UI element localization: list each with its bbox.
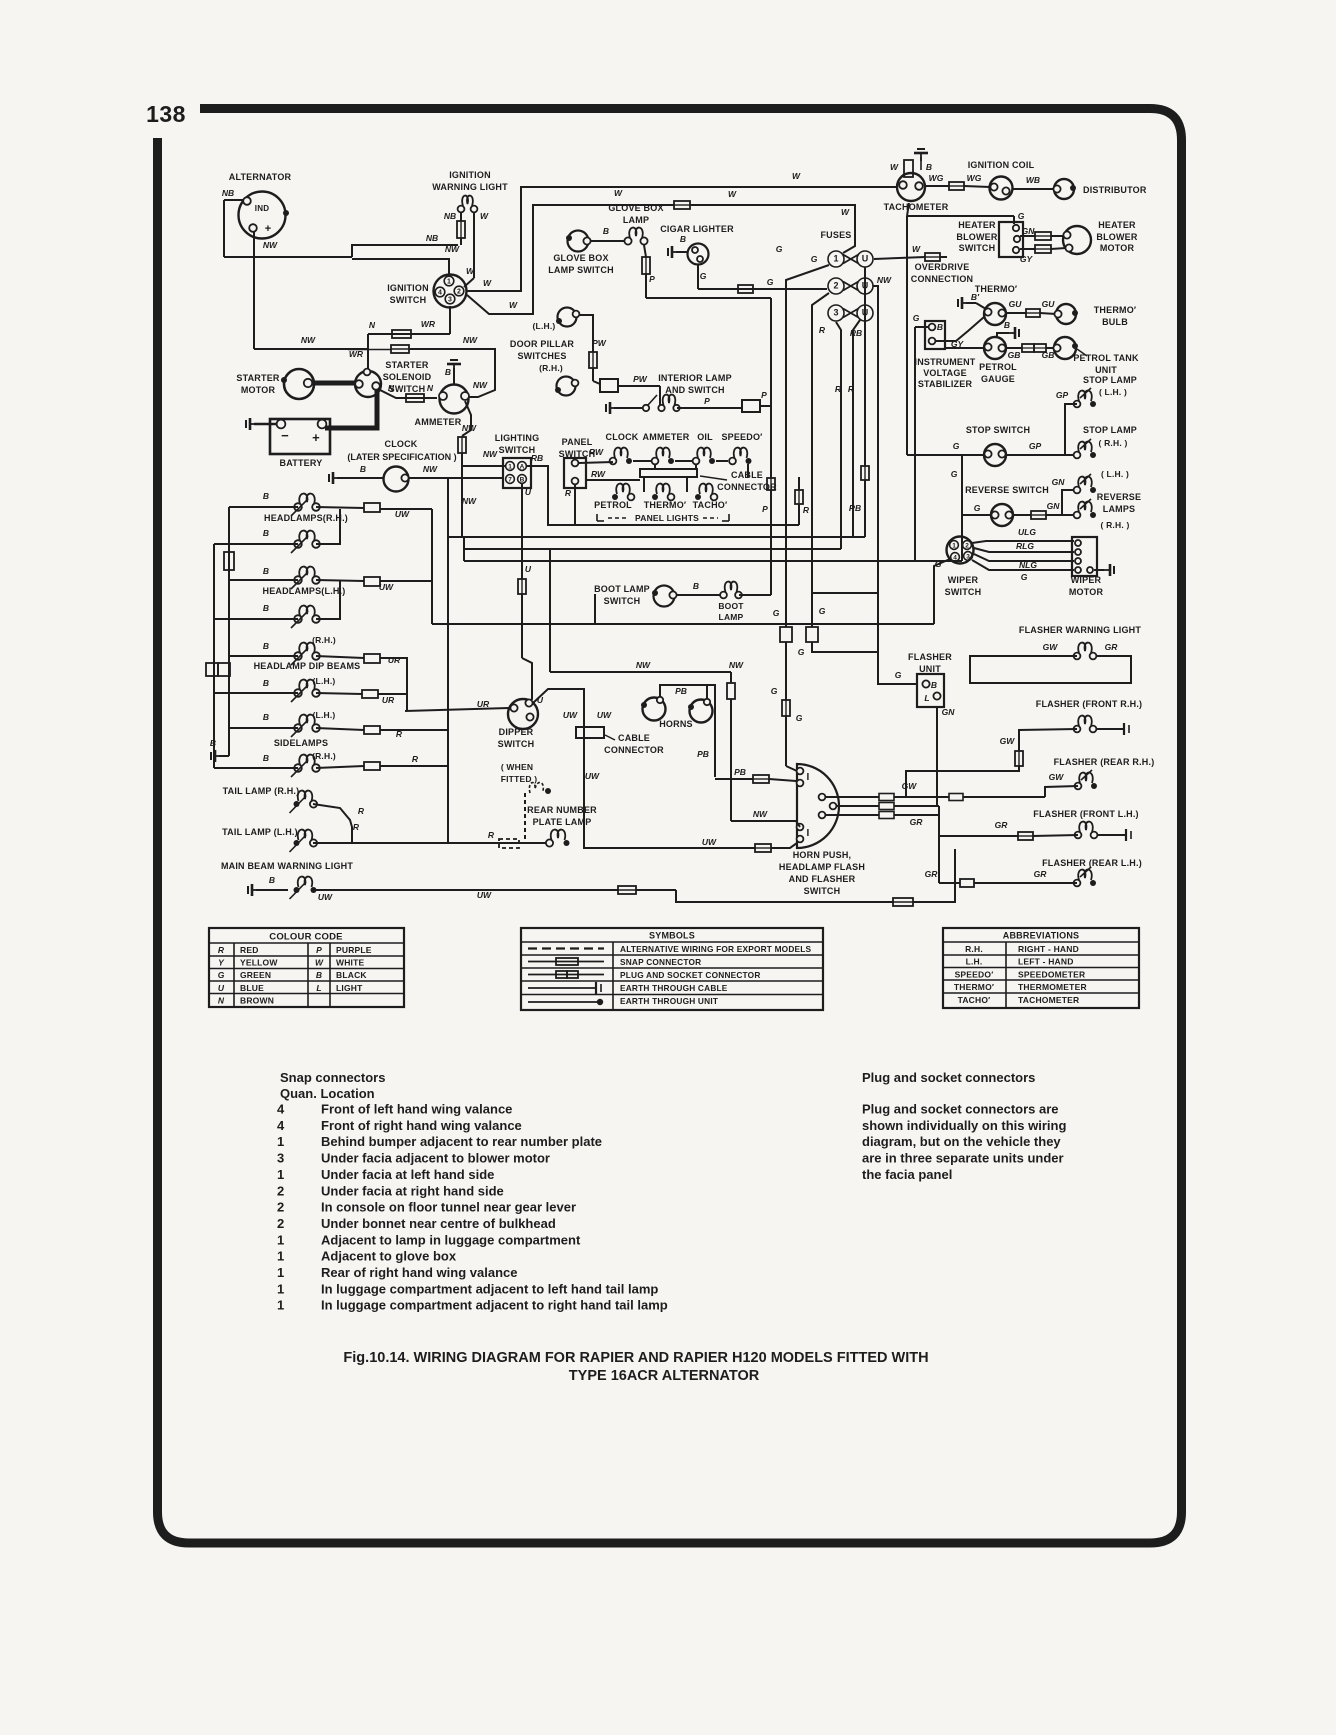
svg-text:1: 1: [833, 254, 838, 264]
svg-text:EARTH THROUGH CABLE: EARTH THROUGH CABLE: [620, 983, 728, 993]
svg-text:B: B: [520, 477, 525, 484]
svg-text:NW: NW: [263, 240, 278, 250]
svg-text:GN: GN: [1047, 501, 1061, 511]
svg-text:Front of right hand wing valan: Front of right hand wing valance: [321, 1118, 522, 1133]
svg-text:GR: GR: [1034, 869, 1048, 879]
svg-text:RIGHT - HAND: RIGHT - HAND: [1018, 944, 1079, 954]
svg-text:SYMBOLS: SYMBOLS: [649, 931, 695, 941]
svg-text:IGNITION: IGNITION: [387, 283, 429, 293]
svg-text:DOOR PILLAR: DOOR PILLAR: [510, 339, 574, 349]
svg-text:G: G: [798, 647, 805, 657]
svg-text:4: 4: [277, 1118, 285, 1133]
svg-text:GR: GR: [910, 817, 924, 827]
svg-text:(R.H.): (R.H.): [312, 751, 336, 761]
svg-text:HORNS: HORNS: [659, 719, 693, 729]
svg-text:( R.H. ): ( R.H. ): [1101, 520, 1130, 530]
svg-text:UW: UW: [597, 710, 612, 720]
svg-text:AMMETER: AMMETER: [415, 417, 462, 427]
svg-text:G: G: [819, 606, 826, 616]
svg-text:PURPLE: PURPLE: [336, 945, 372, 955]
svg-text:R: R: [848, 384, 855, 394]
svg-text:W: W: [614, 188, 623, 198]
svg-text:are in three separate units un: are in three separate units under: [862, 1151, 1064, 1166]
svg-text:B: B: [445, 367, 451, 377]
svg-text:B: B: [937, 322, 943, 332]
svg-text:( L.H. ): ( L.H. ): [1101, 469, 1129, 479]
svg-text:B: B: [316, 970, 322, 980]
svg-text:HEATER: HEATER: [1098, 220, 1136, 230]
svg-text:G: G: [773, 608, 780, 618]
svg-text:PLUG AND SOCKET CONNECTOR: PLUG AND SOCKET CONNECTOR: [620, 970, 761, 980]
svg-text:SWITCHES: SWITCHES: [517, 351, 566, 361]
svg-text:WR: WR: [349, 349, 364, 359]
svg-text:BROWN: BROWN: [240, 995, 274, 1005]
svg-text:SWITCH: SWITCH: [498, 739, 535, 749]
svg-text:1: 1: [277, 1249, 284, 1264]
svg-text:NW: NW: [473, 380, 488, 390]
svg-text:U: U: [525, 487, 532, 497]
svg-text:BLOWER: BLOWER: [1096, 232, 1137, 242]
svg-text:R: R: [353, 822, 360, 832]
svg-text:FUSES: FUSES: [820, 230, 851, 240]
svg-text:BOOT: BOOT: [718, 601, 744, 611]
svg-text:SPEEDOMETER: SPEEDOMETER: [1018, 969, 1085, 979]
svg-text:WG: WG: [967, 173, 982, 183]
svg-text:G: G: [767, 277, 774, 287]
svg-text:( R.H. ): ( R.H. ): [1099, 438, 1128, 448]
svg-text:2: 2: [277, 1183, 284, 1198]
svg-text:THERMOMETER: THERMOMETER: [1018, 982, 1087, 992]
svg-text:PB: PB: [697, 749, 709, 759]
svg-text:TACHOMETER: TACHOMETER: [884, 202, 949, 212]
svg-text:R: R: [412, 754, 419, 764]
svg-text:SWITCH: SWITCH: [389, 384, 426, 394]
svg-text:GP: GP: [1029, 441, 1042, 451]
svg-text:Quan. Location: Quan. Location: [280, 1086, 375, 1101]
svg-text:G: G: [218, 970, 225, 980]
svg-text:GR: GR: [995, 820, 1009, 830]
svg-text:Adjacent to glove box: Adjacent to glove box: [321, 1249, 457, 1264]
svg-text:PANEL LIGHTS: PANEL LIGHTS: [635, 513, 699, 523]
svg-text:YELLOW: YELLOW: [240, 958, 278, 968]
svg-text:PW: PW: [592, 338, 607, 348]
svg-text:NLG: NLG: [1019, 560, 1037, 570]
svg-text:UW: UW: [477, 890, 492, 900]
svg-text:REVERSE: REVERSE: [1097, 492, 1141, 502]
svg-text:the facia panel: the facia panel: [862, 1167, 952, 1182]
svg-text:HEADLAMP DIP BEAMS: HEADLAMP DIP BEAMS: [254, 661, 361, 671]
svg-text:UW: UW: [318, 892, 333, 902]
svg-text:GN: GN: [942, 707, 956, 717]
svg-text:UNIT: UNIT: [919, 664, 941, 674]
svg-text:2: 2: [457, 289, 461, 296]
svg-text:Plug and socket connectors: Plug and socket connectors: [862, 1070, 1035, 1085]
svg-text:3: 3: [833, 308, 838, 318]
svg-text:Fig.10.14. WIRING DIAGRAM FOR: Fig.10.14. WIRING DIAGRAM FOR RAPIER AND…: [343, 1350, 928, 1366]
svg-text:UNIT: UNIT: [1095, 365, 1117, 375]
svg-text:In console on floor tunnel nea: In console on floor tunnel near gear lev…: [321, 1200, 576, 1215]
svg-text:R: R: [819, 325, 826, 335]
svg-text:B: B: [210, 738, 216, 748]
svg-text:WHITE: WHITE: [336, 958, 365, 968]
svg-text:LAMP: LAMP: [719, 612, 744, 622]
svg-text:TAIL LAMP (L.H.): TAIL LAMP (L.H.): [222, 827, 298, 837]
svg-text:UW: UW: [702, 837, 717, 847]
svg-text:PETROL: PETROL: [979, 362, 1017, 372]
svg-text:W: W: [480, 211, 489, 221]
svg-text:R: R: [803, 505, 810, 515]
svg-text:NW: NW: [877, 275, 892, 285]
svg-text:BLUE: BLUE: [240, 983, 264, 993]
svg-text:N: N: [218, 995, 225, 1005]
svg-text:A: A: [520, 464, 525, 471]
svg-text:P: P: [704, 396, 710, 406]
svg-text:RW: RW: [589, 447, 604, 457]
svg-text:NW: NW: [753, 809, 768, 819]
svg-text:B: B: [926, 162, 932, 172]
svg-text:THERMO′: THERMO′: [644, 500, 687, 510]
svg-text:THERMO′: THERMO′: [954, 982, 994, 992]
svg-text:B: B: [931, 680, 937, 690]
svg-text:4: 4: [277, 1102, 285, 1117]
svg-text:G: G: [796, 713, 803, 723]
svg-text:B: B: [263, 641, 269, 651]
svg-text:IGNITION COIL: IGNITION COIL: [968, 160, 1035, 170]
svg-text:(LATER SPECIFICATION ): (LATER SPECIFICATION ): [347, 452, 456, 462]
svg-text:Under facia adjacent to blower: Under facia adjacent to blower motor: [321, 1151, 550, 1166]
svg-text:BATTERY: BATTERY: [280, 458, 323, 468]
svg-text:LAMP: LAMP: [623, 215, 649, 225]
svg-text:NB: NB: [444, 211, 456, 221]
svg-text:PANEL: PANEL: [562, 437, 593, 447]
svg-text:PW: PW: [633, 374, 648, 384]
svg-text:FLASHER: FLASHER: [908, 652, 952, 662]
svg-text:diagram, but on the vehicle th: diagram, but on the vehicle they: [862, 1134, 1061, 1149]
svg-text:B: B: [603, 226, 609, 236]
svg-text:SNAP CONNECTOR: SNAP CONNECTOR: [620, 957, 701, 967]
svg-text:1: 1: [277, 1265, 284, 1280]
svg-text:NW: NW: [462, 423, 477, 433]
svg-text:NB: NB: [426, 233, 438, 243]
svg-text:L.H.: L.H.: [966, 957, 983, 967]
svg-text:B: B: [1004, 320, 1010, 330]
svg-text:ALTERNATIVE WIRING FOR EXPORT: ALTERNATIVE WIRING FOR EXPORT MODELS: [620, 944, 812, 954]
svg-text:U: U: [525, 564, 532, 574]
svg-text:REAR NUMBER: REAR NUMBER: [527, 805, 597, 815]
svg-text:LAMPS: LAMPS: [1103, 504, 1136, 514]
svg-text:FLASHER WARNING LIGHT: FLASHER WARNING LIGHT: [1019, 625, 1141, 635]
svg-text:INTERIOR LAMP: INTERIOR LAMP: [658, 373, 732, 383]
svg-text:NW: NW: [462, 496, 477, 506]
svg-text:B: B: [263, 528, 269, 538]
svg-text:SWITCH: SWITCH: [499, 445, 536, 455]
svg-text:W: W: [728, 189, 737, 199]
svg-text:U: U: [537, 695, 544, 705]
svg-text:EARTH THROUGH UNIT: EARTH THROUGH UNIT: [620, 996, 718, 1006]
svg-text:G: G: [771, 686, 778, 696]
svg-text:138: 138: [146, 101, 186, 127]
svg-text:SPEEDO′: SPEEDO′: [721, 432, 762, 442]
svg-text:HEADLAMPS(R.H.): HEADLAMPS(R.H.): [264, 513, 348, 523]
svg-text:G: G: [974, 503, 981, 513]
svg-text:P: P: [316, 945, 322, 955]
svg-text:AMMETER: AMMETER: [643, 432, 690, 442]
svg-text:G: G: [1018, 211, 1025, 221]
svg-text:TACHO′: TACHO′: [693, 500, 728, 510]
svg-text:W: W: [466, 266, 475, 276]
svg-text:(R.H.): (R.H.): [539, 363, 563, 373]
svg-text:B: B: [680, 234, 686, 244]
svg-text:VOLTAGE: VOLTAGE: [923, 368, 967, 378]
svg-text:GW: GW: [902, 781, 918, 791]
svg-text:B′: B′: [971, 292, 980, 302]
svg-text:B: B: [269, 875, 275, 885]
svg-text:HEADLAMP FLASH: HEADLAMP FLASH: [779, 862, 865, 872]
svg-text:CONNECTION: CONNECTION: [911, 274, 974, 284]
svg-text:NB: NB: [222, 188, 234, 198]
svg-text:(L.H.): (L.H.): [533, 321, 556, 331]
svg-text:1: 1: [277, 1134, 284, 1149]
svg-text:AND FLASHER: AND FLASHER: [789, 874, 856, 884]
svg-text:−: −: [281, 428, 289, 443]
svg-text:In luggage compartment adjacen: In luggage compartment adjacent to right…: [321, 1298, 668, 1313]
svg-text:STOP LAMP: STOP LAMP: [1083, 425, 1137, 435]
svg-text:3: 3: [448, 297, 452, 304]
svg-text:STARTER: STARTER: [385, 360, 429, 370]
svg-text:W: W: [509, 300, 518, 310]
svg-text:1: 1: [952, 543, 956, 550]
svg-text:R: R: [565, 488, 572, 498]
svg-text:UR: UR: [388, 655, 401, 665]
svg-text:WB: WB: [1026, 175, 1040, 185]
svg-text:PB: PB: [734, 767, 746, 777]
svg-text:GN: GN: [1022, 226, 1036, 236]
svg-text:BOOT LAMP: BOOT LAMP: [594, 584, 650, 594]
svg-text:B: B: [263, 712, 269, 722]
svg-text:P: P: [762, 504, 768, 514]
svg-text:MOTOR: MOTOR: [1100, 243, 1135, 253]
svg-text:G: G: [776, 244, 783, 254]
svg-text:G: G: [951, 469, 958, 479]
svg-text:STABILIZER: STABILIZER: [918, 379, 973, 389]
svg-text:LAMP SWITCH: LAMP SWITCH: [548, 265, 614, 275]
svg-text:CLOCK: CLOCK: [385, 439, 418, 449]
svg-text:TAIL LAMP (R.H.): TAIL LAMP (R.H.): [223, 786, 300, 796]
svg-text:GREEN: GREEN: [240, 970, 271, 980]
svg-text:COLOUR CODE: COLOUR CODE: [269, 932, 342, 943]
svg-text:B: B: [360, 464, 366, 474]
svg-text:2: 2: [833, 281, 838, 291]
svg-text:4: 4: [438, 290, 442, 297]
svg-text:SWITCH: SWITCH: [390, 295, 427, 305]
svg-text:+: +: [265, 223, 272, 235]
svg-text:NW: NW: [423, 464, 438, 474]
svg-text:G: G: [700, 271, 707, 281]
svg-text:SWITCH: SWITCH: [959, 243, 996, 253]
svg-text:CIGAR LIGHTER: CIGAR LIGHTER: [660, 224, 734, 234]
svg-text:WARNING LIGHT: WARNING LIGHT: [432, 182, 508, 192]
svg-text:GU: GU: [1009, 299, 1023, 309]
svg-text:IGNITION: IGNITION: [449, 170, 491, 180]
svg-text:R: R: [488, 830, 495, 840]
svg-text:FLASHER (REAR L.H.): FLASHER (REAR L.H.): [1042, 858, 1142, 868]
svg-text:UW: UW: [379, 582, 394, 592]
svg-text:UR: UR: [382, 695, 395, 705]
svg-text:GY: GY: [1020, 254, 1034, 264]
svg-text:NW: NW: [301, 335, 316, 345]
svg-text:SOLENOID: SOLENOID: [383, 372, 432, 382]
svg-text:NW: NW: [463, 335, 478, 345]
svg-text:Under facia at left hand side: Under facia at left hand side: [321, 1167, 494, 1182]
svg-text:B: B: [263, 491, 269, 501]
svg-text:B: B: [263, 566, 269, 576]
svg-text:B: B: [263, 753, 269, 763]
svg-text:THERMO′: THERMO′: [1094, 305, 1137, 315]
svg-text:RLG: RLG: [1016, 541, 1034, 551]
svg-text:THERMO′: THERMO′: [975, 284, 1018, 294]
svg-text:NW: NW: [483, 449, 498, 459]
svg-text:Plug and socket connectors are: Plug and socket connectors are: [862, 1102, 1059, 1117]
svg-text:L: L: [924, 693, 929, 703]
svg-text:Front of left hand wing valanc: Front of left hand wing valance: [321, 1102, 512, 1117]
svg-text:LIGHTING: LIGHTING: [495, 433, 540, 443]
svg-text:FLASHER (FRONT R.H.): FLASHER (FRONT R.H.): [1036, 699, 1143, 709]
svg-text:1: 1: [277, 1167, 284, 1182]
svg-text:TACHO′: TACHO′: [958, 995, 991, 1005]
svg-text:(L.H.): (L.H.): [313, 676, 336, 686]
svg-text:NW: NW: [445, 244, 460, 254]
svg-text:shown individually on this wir: shown individually on this wiring: [862, 1118, 1066, 1133]
svg-text:R.H.: R.H.: [965, 944, 983, 954]
svg-text:P: P: [649, 274, 655, 284]
svg-text:REVERSE SWITCH: REVERSE SWITCH: [965, 485, 1049, 495]
svg-text:G: G: [1021, 572, 1028, 582]
svg-text:G: G: [913, 313, 920, 323]
svg-text:GW: GW: [1049, 772, 1065, 782]
svg-text:MAIN BEAM WARNING LIGHT: MAIN BEAM WARNING LIGHT: [221, 861, 353, 871]
svg-text:N: N: [427, 383, 434, 393]
svg-text:CABLE: CABLE: [618, 733, 650, 743]
svg-text:BULB: BULB: [1102, 317, 1128, 327]
svg-text:INSTRUMENT: INSTRUMENT: [915, 357, 976, 367]
svg-text:PETROL TANK: PETROL TANK: [1073, 353, 1139, 363]
svg-text:WIPER: WIPER: [948, 575, 979, 585]
svg-text:SWITCH: SWITCH: [604, 596, 641, 606]
svg-text:NW: NW: [729, 660, 744, 670]
svg-text:2: 2: [277, 1216, 284, 1231]
svg-text:UW: UW: [395, 509, 410, 519]
svg-text:U: U: [862, 254, 869, 264]
svg-text:W: W: [483, 278, 492, 288]
svg-text:1: 1: [447, 279, 451, 286]
svg-text:STOP LAMP: STOP LAMP: [1083, 375, 1137, 385]
svg-text:NW: NW: [636, 660, 651, 670]
svg-text:7: 7: [508, 477, 512, 484]
svg-text:RED: RED: [240, 945, 259, 955]
svg-text:1: 1: [508, 464, 512, 471]
svg-text:GR: GR: [1105, 642, 1119, 652]
svg-text:SWITCH: SWITCH: [804, 886, 841, 896]
svg-text:GB: GB: [1008, 350, 1021, 360]
svg-text:LEFT - HAND: LEFT - HAND: [1018, 957, 1074, 967]
svg-text:ABBREVIATIONS: ABBREVIATIONS: [1003, 931, 1079, 941]
svg-text:IND: IND: [255, 204, 269, 213]
svg-text:W: W: [890, 162, 899, 172]
svg-text:R: R: [358, 806, 365, 816]
svg-text:W: W: [792, 171, 801, 181]
svg-text:PB: PB: [675, 686, 687, 696]
svg-text:DISTRIBUTOR: DISTRIBUTOR: [1083, 185, 1147, 195]
svg-text:3: 3: [277, 1151, 284, 1166]
svg-text:In luggage compartment adjacen: In luggage compartment adjacent to left …: [321, 1281, 658, 1296]
svg-text:UW: UW: [563, 710, 578, 720]
svg-text:1: 1: [277, 1232, 284, 1247]
svg-text:OVERDRIVE: OVERDRIVE: [915, 262, 970, 272]
svg-text:CLOCK: CLOCK: [606, 432, 639, 442]
svg-text:G: G: [895, 670, 902, 680]
svg-text:STARTER: STARTER: [236, 373, 280, 383]
svg-text:LIGHT: LIGHT: [336, 983, 363, 993]
svg-text:Adjacent to lamp in luggage co: Adjacent to lamp in luggage compartment: [321, 1232, 581, 1247]
svg-text:3: 3: [966, 554, 970, 561]
svg-text:TACHOMETER: TACHOMETER: [1018, 995, 1079, 1005]
svg-text:MOTOR: MOTOR: [241, 385, 276, 395]
svg-text:WG: WG: [929, 173, 944, 183]
svg-text:PLATE LAMP: PLATE LAMP: [533, 817, 592, 827]
svg-text:W: W: [315, 958, 324, 968]
svg-text:(R.H.): (R.H.): [312, 635, 336, 645]
svg-text:BLACK: BLACK: [336, 970, 367, 980]
svg-text:+: +: [312, 430, 320, 445]
svg-text:BLOWER: BLOWER: [956, 232, 997, 242]
svg-text:Rear of right hand wing valanc: Rear of right hand wing valance: [321, 1265, 517, 1280]
svg-text:FLASHER (FRONT L.H.): FLASHER (FRONT L.H.): [1033, 809, 1139, 819]
svg-text:SWITCH: SWITCH: [945, 587, 982, 597]
svg-text:G: G: [811, 254, 818, 264]
svg-text:MOTOR: MOTOR: [1069, 587, 1104, 597]
svg-text:Snap connectors: Snap connectors: [280, 1070, 385, 1085]
svg-text:R: R: [218, 945, 225, 955]
svg-text:TYPE 16ACR ALTERNATOR: TYPE 16ACR ALTERNATOR: [569, 1368, 760, 1384]
svg-text:GW: GW: [1000, 736, 1016, 746]
svg-text:RB: RB: [531, 453, 543, 463]
svg-text:GP: GP: [1056, 390, 1069, 400]
svg-text:L: L: [316, 983, 321, 993]
svg-text:GN: GN: [1052, 477, 1066, 487]
svg-text:GAUGE: GAUGE: [981, 374, 1015, 384]
svg-text:Under facia at right hand side: Under facia at right hand side: [321, 1183, 504, 1198]
svg-text:ULG: ULG: [1018, 527, 1036, 537]
svg-text:U: U: [218, 983, 225, 993]
svg-text:B: B: [263, 603, 269, 613]
svg-text:RB: RB: [850, 328, 862, 338]
svg-text:PETROL: PETROL: [594, 500, 632, 510]
svg-text:GU: GU: [1042, 299, 1056, 309]
svg-text:ALTERNATOR: ALTERNATOR: [229, 172, 292, 182]
svg-text:I: I: [807, 772, 810, 783]
svg-text:GLOVE BOX: GLOVE BOX: [608, 203, 663, 213]
svg-text:B: B: [263, 678, 269, 688]
svg-text:AND SWITCH: AND SWITCH: [665, 385, 725, 395]
svg-text:I: I: [807, 828, 810, 839]
svg-text:B: B: [693, 581, 699, 591]
svg-text:(L.H.): (L.H.): [313, 710, 336, 720]
svg-text:W: W: [912, 244, 921, 254]
svg-text:2: 2: [965, 543, 969, 550]
svg-text:RB: RB: [849, 503, 861, 513]
svg-text:1: 1: [277, 1298, 284, 1313]
svg-text:HORN PUSH,: HORN PUSH,: [793, 850, 852, 860]
